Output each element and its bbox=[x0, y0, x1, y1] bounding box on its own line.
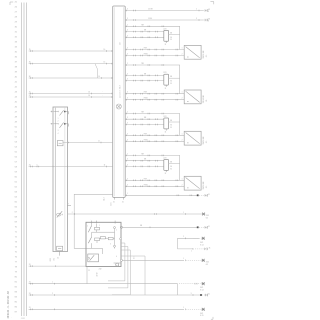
svg-text:15 BL: 15 BL bbox=[148, 18, 152, 20]
row 227.3 end connector bbox=[205, 226, 208, 228]
relay module inner bottom wire bbox=[86, 248, 102, 254]
svg-text:86: 86 bbox=[170, 81, 172, 83]
wire row 160.7 to relay K4 pin bbox=[125, 160, 164, 162]
svg-text:SB: SB bbox=[144, 117, 146, 119]
relay K1 bottom pin stub bbox=[165, 41, 167, 43]
svg-text:31: 31 bbox=[165, 132, 167, 134]
junction dot row 295 bbox=[200, 294, 202, 296]
svg-text:31/5: 31/5 bbox=[200, 313, 203, 315]
wire from bus to central unit row 97 bbox=[29, 96, 113, 98]
svg-text:6/2: 6/2 bbox=[208, 19, 210, 21]
lamp unit square K2 bbox=[184, 90, 201, 104]
tall box bottom pin stub bbox=[59, 252, 61, 256]
wire from bus to central unit row 63.6 bbox=[29, 63, 113, 65]
svg-text:31/5: 31/5 bbox=[206, 261, 209, 263]
wire row 49.5 into lamp unit K1 bbox=[125, 49, 184, 51]
svg-text:G5: G5 bbox=[206, 264, 208, 266]
relay module inner wire row 232 bbox=[92, 231, 115, 233]
component at bottom of tall box bbox=[57, 246, 63, 251]
svg-text:15: 15 bbox=[29, 92, 31, 94]
svg-text:31: 31 bbox=[57, 257, 59, 259]
junction dot row 227.3 bbox=[197, 226, 199, 228]
wire row 283.7 from bus to loop bbox=[29, 283, 178, 285]
svg-text:86: 86 bbox=[170, 166, 172, 168]
wire row 10.5 to connector bbox=[125, 10, 204, 12]
svg-text:2/23: 2/23 bbox=[163, 28, 166, 30]
svg-text:54 3: 54 3 bbox=[104, 197, 106, 200]
svg-text:31: 31 bbox=[122, 201, 124, 203]
wire row 80.6 to relay K2 pin bbox=[125, 80, 164, 82]
svg-text:2: 2 bbox=[72, 212, 73, 214]
svg-text:31/5: 31/5 bbox=[206, 215, 209, 217]
switch S1 contact dark mark bbox=[64, 111, 66, 113]
svg-text:85: 85 bbox=[170, 39, 172, 41]
switch S1 left entry stub bbox=[51, 111, 55, 113]
splice cross row 283.7 bbox=[202, 282, 205, 285]
wire row 20 to connector bbox=[125, 19, 204, 21]
svg-text:75SB: 75SB bbox=[144, 139, 148, 141]
svg-text:75SB: 75SB bbox=[144, 98, 148, 100]
svg-text:31: 31 bbox=[29, 264, 31, 266]
corner mark top-left bbox=[10, 2, 13, 5]
switch S1 right hook bbox=[66, 112, 69, 115]
wire row 119.2 to relay K3 pin bbox=[125, 118, 164, 120]
svg-text:31: 31 bbox=[208, 226, 210, 228]
central unit inner wall left bbox=[113, 7, 115, 196]
row 10.5 end connector bbox=[205, 9, 208, 11]
svg-text:75SB: 75SB bbox=[144, 54, 148, 56]
svg-text:·31·: ·31· bbox=[206, 140, 208, 143]
relay K4 bottom pin stub bbox=[165, 170, 167, 172]
dashed lead row 283.7 to splice bbox=[179, 283, 201, 285]
relay module inner sub-box bbox=[88, 254, 99, 262]
relay module inner wire row 238 bbox=[100, 238, 101, 240]
svg-text:32/16 6E: 32/16 6E bbox=[203, 95, 205, 104]
splice cross row 260.3 bbox=[202, 259, 205, 262]
svg-text:31: 31 bbox=[29, 307, 31, 309]
dashed lead row 227.3 bbox=[199, 226, 205, 228]
tall box right edge stub at 205.7 bbox=[68, 205, 72, 207]
wire row 266.1 from bus to relay module bbox=[29, 265, 86, 267]
svg-text:SB: SB bbox=[170, 32, 172, 34]
splice cross row 238.3 bbox=[202, 237, 205, 240]
dashed lead row 238.3 to splice bbox=[194, 237, 201, 239]
wire row 26.3 over relay K1 turning down to lamp unit bbox=[125, 26, 180, 49]
row 248.9 pin and end connector bbox=[192, 248, 194, 250]
corner mark top-right bbox=[210, 2, 213, 5]
svg-text:SB: SB bbox=[170, 76, 172, 78]
wire row 227.3 from relay module to connector bbox=[121, 226, 198, 228]
svg-text:75W: 75W bbox=[144, 92, 148, 94]
loop vertical 177.6 row 283.7 to 295 bbox=[177, 284, 179, 295]
svg-text:14: 14 bbox=[104, 164, 106, 166]
switch module inner wall right bbox=[64, 108, 66, 251]
wire row 135.3 into lamp unit K3 bbox=[125, 134, 184, 136]
svg-text:31: 31 bbox=[165, 44, 167, 46]
wire row 124.5 to relay K3 pin bbox=[125, 124, 164, 126]
relay module right column circle bottom bbox=[114, 245, 116, 247]
svg-text:G 15: G 15 bbox=[200, 315, 204, 317]
wire central unit to relay module via left drop bbox=[74, 194, 113, 248]
switch module inner wall left bbox=[54, 108, 56, 251]
svg-text:31: 31 bbox=[208, 194, 210, 196]
svg-text:15: 15 bbox=[29, 49, 31, 51]
relay K1 bbox=[164, 30, 169, 41]
switch S2 left entry stub bbox=[51, 123, 55, 125]
relay module right edge circle row 238 bbox=[120, 238, 122, 240]
svg-text:3: 3 bbox=[191, 293, 192, 295]
svg-text:SB: SB bbox=[144, 30, 146, 32]
svg-text:2/32: 2/32 bbox=[50, 258, 52, 261]
svg-text:4 6: 4 6 bbox=[134, 256, 136, 258]
switch S2 right hook bbox=[66, 124, 69, 127]
left margin current-track ruler numbers bbox=[15, 2, 18, 314]
relay module terminal pin top 2 bbox=[96, 221, 98, 224]
svg-text:SB: SB bbox=[170, 162, 172, 164]
relay module sub-box switch bbox=[90, 255, 95, 260]
supply bus line 3 bbox=[26, 3, 28, 317]
wire row 113.5 over relay K3 turning down to lamp unit bbox=[125, 114, 180, 136]
relay module terminal pin top 1 bbox=[91, 221, 93, 224]
svg-text:75W: 75W bbox=[144, 48, 148, 50]
wire row 37.3 to relay K1 pin bbox=[125, 36, 164, 38]
dashed lead row 195.3 to end connector bbox=[199, 194, 205, 196]
svg-text:SB: SB bbox=[140, 225, 142, 227]
relay module switch arm 1 bbox=[88, 226, 91, 233]
svg-text:15 I: 15 I bbox=[119, 42, 121, 45]
svg-text:SB: SB bbox=[144, 73, 146, 75]
svg-text:16: 16 bbox=[104, 62, 106, 64]
wire row 93.7 into lamp unit K2 bbox=[125, 93, 184, 95]
svg-text:2/23: 2/23 bbox=[163, 158, 166, 160]
component K1 inside tall box bbox=[57, 141, 63, 146]
relay module inner rect A bbox=[101, 237, 106, 239]
switch S3 pin mark bbox=[61, 214, 63, 215]
svg-text:31/5: 31/5 bbox=[200, 287, 203, 289]
central unit inner wall right bbox=[123, 7, 125, 196]
svg-text:31: 31 bbox=[165, 173, 167, 175]
svg-text:SB: SB bbox=[144, 159, 146, 161]
wire from bus to central unit row 78 bbox=[29, 77, 113, 79]
hook wire 1 from relay module bbox=[108, 243, 125, 281]
splice cross row 309.3 bbox=[202, 308, 205, 311]
svg-text:3/1: 3/1 bbox=[54, 258, 56, 261]
relay module coil 2 bbox=[95, 238, 100, 241]
wire row 75.4 to relay K2 pin bbox=[125, 74, 164, 76]
svg-text:16: 16 bbox=[98, 76, 100, 78]
svg-text:31: 31 bbox=[29, 164, 31, 166]
wire row 214 from switch strip to splice bbox=[68, 213, 202, 215]
lamp symbol inside central unit bbox=[116, 104, 121, 109]
wire from bus to central unit row 93.5 bbox=[29, 93, 113, 95]
wire from tall box to central unit row 142.5 bbox=[63, 142, 113, 144]
relay K2 bbox=[164, 74, 169, 85]
svg-text:·31·: ·31· bbox=[206, 99, 208, 102]
svg-text:16: 16 bbox=[88, 95, 90, 97]
svg-text:16: 16 bbox=[104, 49, 106, 51]
svg-text:31: 31 bbox=[113, 201, 115, 203]
svg-text:31: 31 bbox=[29, 95, 31, 97]
hook wire 4 from relay module bbox=[121, 256, 145, 295]
svg-text:75W: 75W bbox=[144, 178, 148, 180]
supply bus line 1 bbox=[21, 3, 23, 317]
svg-text:6/1: 6/1 bbox=[208, 9, 210, 11]
wire row 65.0 over relay K2 turning down to lamp unit bbox=[125, 65, 180, 94]
supply bus line 2 bbox=[23, 3, 25, 317]
junction dot row 195.3 bbox=[197, 194, 199, 196]
svg-text:32/16 6E: 32/16 6E bbox=[203, 136, 205, 145]
splice cross row 214 bbox=[202, 213, 205, 216]
relay module bottom terminal circle bbox=[116, 263, 119, 266]
relay module switch arm 2 bbox=[88, 237, 91, 243]
svg-text:31: 31 bbox=[165, 88, 167, 90]
svg-text:2/23: 2/23 bbox=[163, 116, 166, 118]
wire row 155.4 over relay K4 turning down to lamp unit bbox=[125, 155, 180, 180]
relay module coil 1 bbox=[95, 227, 100, 230]
svg-text:85: 85 bbox=[170, 168, 172, 170]
row 295 end connector bbox=[202, 294, 205, 296]
svg-text:·31·: ·31· bbox=[206, 54, 208, 57]
svg-text:2/32: 2/32 bbox=[99, 269, 102, 271]
svg-text:86: 86 bbox=[170, 37, 172, 39]
wire from bus to central unit row 51 bbox=[29, 50, 113, 52]
relay module inner verticals bbox=[92, 224, 115, 249]
svg-text:39/0100 - 3 - 349/102 AB: 39/0100 - 3 - 349/102 AB bbox=[7, 291, 10, 319]
svg-text:SB: SB bbox=[170, 120, 172, 122]
lamp unit square K1 bbox=[184, 45, 201, 59]
svg-text:30: 30 bbox=[29, 62, 31, 64]
svg-text:11: 11 bbox=[98, 140, 100, 142]
wire row 141.3 into lamp unit K3 bbox=[125, 140, 184, 142]
lamp unit square K3 bbox=[184, 131, 201, 145]
svg-text:≫≫: ≫≫ bbox=[96, 272, 99, 277]
svg-text:31/5: 31/5 bbox=[200, 242, 203, 244]
relay K3 bbox=[164, 118, 169, 129]
svg-text:75W: 75W bbox=[144, 133, 148, 135]
hook wire 2 from relay module bbox=[108, 247, 128, 288]
switch S3 inside tall box bbox=[57, 213, 61, 216]
wire row 55.5 into lamp unit K1 bbox=[125, 55, 184, 57]
wire row 186.3 into lamp unit K4 bbox=[125, 185, 184, 187]
relay module box 2/32 bbox=[86, 222, 121, 266]
wire row 180.3 into lamp unit K4 bbox=[125, 179, 184, 181]
wire row 195.3 from central unit to connector with junction dot bbox=[125, 194, 198, 196]
svg-text:31: 31 bbox=[29, 282, 31, 284]
relay K3 bottom pin stub bbox=[165, 129, 167, 131]
wire row 166.4 to relay K4 pin bbox=[125, 165, 164, 167]
svg-text:75SB: 75SB bbox=[144, 184, 148, 186]
hook wire 3 from relay module bbox=[112, 250, 130, 295]
svg-text:G 14: G 14 bbox=[200, 290, 204, 292]
svg-text:86: 86 bbox=[170, 124, 172, 126]
wire row 295 from bus to end connector bbox=[29, 294, 200, 296]
central unit bottom pin 2 bbox=[123, 197, 125, 199]
svg-text:31: 31 bbox=[208, 294, 210, 296]
wire row 31.6 to relay K1 pin bbox=[125, 31, 164, 33]
wire row 260.3 from relay module to splice bbox=[121, 259, 184, 261]
relay module right column vertical bbox=[114, 227, 116, 247]
svg-text:31: 31 bbox=[88, 270, 90, 272]
svg-text:G5: G5 bbox=[206, 217, 208, 219]
svg-text:85: 85 bbox=[170, 127, 172, 129]
wire from bus through tall box row 166.5 bbox=[29, 166, 113, 168]
lamp unit square K4 bbox=[184, 176, 201, 190]
central electrical unit box 11/1 bbox=[113, 6, 126, 197]
svg-text:30: 30 bbox=[29, 76, 31, 78]
wire row 309.3 from bus to splice bbox=[29, 308, 184, 310]
corner mark bottom-right bbox=[211, 317, 213, 319]
jumper diagonal from row 63.6 down to row 78 bbox=[95, 64, 98, 78]
row 20 end connector bbox=[205, 19, 208, 21]
wire relay module bottom drop to row 283.7 bbox=[86, 267, 88, 284]
svg-text:G 14: G 14 bbox=[200, 244, 204, 246]
svg-text:32/16 6E: 32/16 6E bbox=[203, 50, 205, 59]
svg-text:85: 85 bbox=[170, 83, 172, 85]
loop wire rows 238.3 and 248.9 bbox=[178, 238, 199, 249]
svg-text:·31·: ·31· bbox=[206, 185, 208, 188]
svg-text:31: 31 bbox=[209, 247, 211, 249]
svg-text:11/1 15 I 30 X: 11/1 15 I 30 X bbox=[119, 84, 121, 98]
relay module right column circle top bbox=[114, 227, 116, 229]
switch S1 inside tall box bbox=[54, 111, 58, 113]
row 195.3 end connector bbox=[205, 194, 208, 196]
relay module terminal pin top right bbox=[114, 221, 116, 224]
central unit bottom pin 1 bbox=[114, 197, 116, 199]
relay K2 bottom pin stub bbox=[165, 85, 167, 87]
svg-text:32/16 6E: 32/16 6E bbox=[203, 181, 205, 190]
svg-text:2/23: 2/23 bbox=[163, 72, 166, 74]
wire row 99.7 into lamp unit K2 bbox=[125, 99, 184, 101]
svg-text:16: 16 bbox=[88, 92, 90, 94]
svg-text:31: 31 bbox=[29, 293, 31, 295]
relay module inner rect B bbox=[108, 237, 113, 239]
switch S2 inside tall box bbox=[54, 123, 58, 125]
relay K4 bbox=[164, 160, 169, 171]
switch module tall box 3/1 bbox=[53, 107, 68, 252]
switch S2 contact dark mark bbox=[64, 123, 66, 125]
svg-text:11/1: 11/1 bbox=[111, 202, 113, 205]
